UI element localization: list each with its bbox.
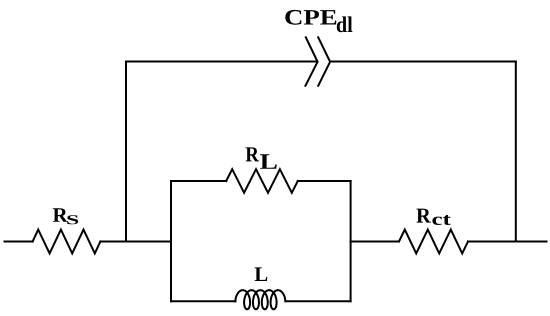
wire CPE branch right vertical (515, 62, 517, 242)
wire Rs to node A (100, 241, 171, 243)
resistor RL (226, 169, 298, 193)
wire left lead (5, 241, 33, 243)
wire box top left (171, 180, 226, 182)
wire box left vertical (170, 181, 172, 301)
wire top left (126, 61, 317, 63)
capacitor CPE chevron 1 (305, 37, 317, 86)
label RL : R (246, 147, 260, 161)
label RL subscript L (260, 154, 277, 169)
capacitor CPE chevron 2 (318, 37, 330, 86)
resistor Rs (33, 230, 101, 254)
wire box bottom left (171, 300, 236, 302)
wire node A to Rct (351, 241, 399, 243)
label Rct : R (416, 209, 431, 223)
resistor Rct (399, 230, 468, 254)
wire Rct to right end (468, 241, 547, 243)
label CPE subscript dl (337, 16, 353, 32)
label Rct subscript ct (432, 215, 450, 225)
wire box top right (298, 180, 351, 182)
label Rs subscript S (67, 215, 78, 224)
wire top right (330, 61, 516, 63)
label L (inductor value) (255, 267, 268, 281)
label Rs : R (53, 208, 68, 222)
wire CPE branch left vertical (125, 62, 127, 242)
label CPE (285, 10, 336, 25)
wire box bottom right (285, 300, 350, 302)
wire box right vertical (350, 181, 352, 301)
inductor L (235, 290, 285, 309)
